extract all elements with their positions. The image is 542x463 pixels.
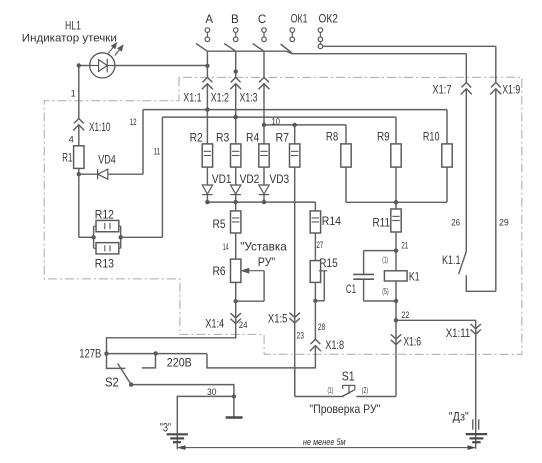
wire OK2 to X1:9 (323, 45, 496, 47)
label R13 (95, 257, 114, 271)
svg-text:K1.1: K1.1 (442, 253, 461, 267)
resistor R5 (231, 211, 241, 233)
node bus R7 (293, 123, 297, 127)
svg-text:VD3: VD3 (270, 172, 290, 186)
svg-text:28: 28 (318, 322, 326, 332)
label X1:8 (325, 340, 344, 352)
label K1 (409, 270, 420, 284)
connector X1:2 (230, 77, 241, 89)
wire phase A drop (206, 51, 208, 77)
diode VD4 (79, 169, 143, 179)
resistor R9 (391, 144, 401, 167)
terminal OK1 contacts (290, 28, 295, 42)
svg-text:C1: C1 (346, 282, 356, 296)
svg-text:R9: R9 (377, 130, 390, 144)
LED HL1 (90, 43, 124, 78)
svg-text:не менее 5м: не менее 5м (303, 437, 346, 448)
wire X1:9 down (495, 89, 497, 291)
label R2 (190, 131, 203, 145)
wire X1:4 out (107, 324, 236, 354)
wire R3 feed (235, 117, 237, 144)
resistor R2 (202, 144, 212, 167)
svg-text:X1:4: X1:4 (205, 319, 224, 331)
node 127V (104, 351, 108, 355)
label VD2 (240, 172, 260, 186)
wire to R12R13 (79, 236, 94, 238)
svg-text:Индикатор утечки: Индикатор утечки (22, 33, 117, 45)
diode VD2 (231, 167, 241, 202)
svg-text:X1:9: X1:9 (502, 85, 520, 97)
label 24 (239, 320, 248, 330)
label 30 (207, 387, 217, 397)
wire R1 to VD4 node (78, 168, 80, 174)
svg-text:R3: R3 (216, 131, 229, 145)
svg-text:VD2: VD2 (240, 172, 260, 186)
wire K1.1 lower (466, 275, 496, 291)
contact K1.1 blade (459, 252, 467, 275)
ground Дз (466, 434, 487, 442)
label R12 (95, 207, 114, 221)
wire S1 left lead (295, 396, 344, 398)
label X1:11 (446, 328, 471, 340)
wire R1 down (78, 174, 80, 237)
switch blade B (224, 44, 235, 52)
wire node30 to earth bar (233, 396, 235, 417)
node 5 (394, 299, 398, 303)
svg-text:X1:3: X1:3 (240, 92, 258, 104)
svg-text:A: A (205, 14, 213, 26)
wire R6 wiper loop (236, 268, 264, 301)
connector X1:6 (391, 334, 401, 344)
svg-text:X1:11: X1:11 (446, 328, 471, 340)
svg-text:R2: R2 (190, 131, 203, 145)
resistor R7 (290, 144, 300, 167)
wire R5 top lead (235, 202, 237, 211)
node bus B (234, 115, 238, 119)
potentiometer R6 (231, 259, 241, 282)
label VD1 (212, 172, 232, 186)
label 22 (401, 310, 409, 320)
svg-text:26: 26 (451, 218, 460, 228)
label X1:3 (240, 92, 258, 104)
svg-text:VD4: VD4 (98, 153, 116, 167)
wire 220V line (207, 354, 295, 368)
resistor R3 (231, 144, 241, 167)
resistor R10 (442, 144, 452, 167)
wire R2 feed (206, 110, 208, 144)
svg-text:X1:2: X1:2 (211, 92, 229, 104)
wire bus 10 (264, 124, 346, 126)
wire R8 R9 R10 bus (346, 201, 447, 203)
wire R15 to X1:8 (314, 282, 316, 339)
svg-text:220В: 220В (167, 357, 192, 369)
label Проверка РУ (309, 402, 380, 416)
connector X1:4 (231, 313, 241, 323)
svg-text:R10: R10 (423, 130, 440, 144)
label X1:9 (502, 85, 520, 97)
label 1 (71, 88, 76, 98)
svg-text:(1): (1) (328, 386, 334, 395)
terminal B contacts (233, 28, 238, 42)
wire S1 right lead (356, 396, 396, 398)
label K1.1 (442, 253, 461, 267)
wire X1:2 to bus (235, 84, 237, 117)
wire bus 11 (162, 116, 396, 118)
switch blade A (196, 44, 207, 52)
label Дз (449, 412, 469, 424)
wire X1:6 to S1 (395, 345, 397, 397)
label X1:1 (183, 92, 201, 104)
label 10 (272, 116, 281, 126)
diode VD1 (202, 167, 212, 202)
label 26 (451, 218, 460, 228)
wire bus 12 (143, 109, 447, 111)
svg-text:R4: R4 (246, 131, 259, 145)
earth bar (226, 416, 243, 419)
svg-text:B: B (231, 14, 239, 26)
svg-text:12: 12 (130, 117, 137, 127)
node B junction (234, 69, 238, 73)
wire 12 riser (142, 110, 144, 175)
label 27 (317, 240, 324, 250)
terminal B label (231, 14, 239, 26)
svg-text:VD1: VD1 (212, 172, 232, 186)
svg-text:11: 11 (154, 146, 160, 156)
svg-text:X1:10: X1:10 (89, 122, 111, 134)
wire bus to R14 (314, 202, 316, 211)
node 220V tap (154, 351, 158, 355)
wire phase B drop (235, 51, 237, 77)
svg-text:R12: R12 (95, 207, 114, 221)
label X1:10 (89, 122, 111, 134)
svg-text:X1:7: X1:7 (432, 84, 451, 96)
node bus A (205, 107, 209, 111)
wire diode bus (207, 201, 315, 203)
label pin (1) (382, 255, 388, 264)
label X1:6 (403, 337, 421, 349)
connector X1:8 (310, 339, 321, 351)
terminal OK2 label (319, 13, 338, 25)
label З (160, 422, 171, 434)
node R15 bottom junction (313, 299, 317, 303)
wire R7 to X1:5 (294, 167, 296, 313)
wire R9 feed (395, 117, 397, 144)
node 30 (232, 394, 236, 398)
label 14 (223, 242, 229, 252)
svg-text:R15: R15 (319, 256, 338, 270)
svg-text:R8: R8 (326, 130, 339, 144)
wire X1:3 to bus (263, 84, 265, 125)
svg-text:R14: R14 (322, 214, 341, 228)
wire node22 down (395, 320, 397, 334)
terminal A label (205, 14, 213, 26)
svg-text:РУ": РУ" (258, 255, 276, 269)
capacitor C1 (353, 251, 396, 301)
svg-text:ОК1: ОК1 (291, 13, 308, 25)
ground З (167, 434, 188, 442)
svg-text:X1:5: X1:5 (268, 313, 288, 325)
wire K1 to node5 (395, 281, 397, 320)
svg-text:S2: S2 (105, 375, 119, 389)
svg-text:23: 23 (297, 330, 305, 340)
connector X1:1 (202, 77, 213, 89)
wire S1 riser (294, 368, 296, 397)
connector X1:3 (259, 77, 270, 89)
terminal C contacts (262, 28, 267, 42)
wire X1:10 to R1 (78, 125, 80, 146)
label X1:7 (432, 84, 451, 96)
svg-text:R6: R6 (213, 264, 226, 278)
svg-text:X1:1: X1:1 (183, 92, 201, 104)
wire R11 to K1 (395, 232, 397, 271)
wire R7 feed (294, 125, 296, 144)
node R12R13 right (119, 235, 123, 239)
node R6 bottom junction (234, 299, 238, 303)
node diode bus VD3 (262, 200, 266, 204)
resistor R13 (94, 243, 121, 254)
switch blade OK1 (281, 44, 292, 53)
terminal OK2 contacts (318, 28, 323, 49)
terminal A contacts (205, 28, 210, 42)
svg-text:R11: R11 (373, 215, 391, 229)
label X1:2 (211, 92, 229, 104)
svg-text:29: 29 (499, 218, 509, 228)
svg-text:K1: K1 (409, 270, 420, 284)
label R4 (246, 131, 259, 145)
svg-text:ОК2: ОК2 (319, 13, 338, 25)
wire 22 line (396, 320, 476, 324)
label HL1 (65, 19, 81, 33)
svg-text:X1:6: X1:6 (403, 337, 421, 349)
label R8 (326, 130, 339, 144)
label R10 (423, 130, 440, 144)
svg-text:127В: 127В (79, 349, 101, 361)
svg-text:22: 22 (401, 310, 409, 320)
svg-text:"Уставка: "Уставка (240, 240, 287, 254)
svg-text:R7: R7 (276, 131, 290, 145)
potentiometer R15 (310, 261, 320, 283)
label Индикатор утечки (22, 33, 117, 45)
svg-text:(2): (2) (362, 386, 369, 395)
terminal OK1 label (291, 13, 308, 25)
node bus C (262, 123, 266, 127)
node R9 R11 junction (394, 200, 398, 204)
node diode bus VD1 (205, 200, 209, 204)
wire R5 to R6 (235, 233, 237, 259)
resistor R4 (259, 144, 269, 167)
wire R9 lead (395, 167, 397, 202)
wire phase C drop (263, 51, 265, 77)
diode VD3 (259, 167, 269, 202)
label 29 (499, 218, 509, 228)
wire R15 wiper loop (315, 271, 327, 301)
wire X1:5 down (294, 323, 296, 397)
node 21 (394, 248, 398, 252)
node VD4 (77, 172, 81, 176)
connector X1:9 (490, 83, 501, 95)
wire R12R13 side stubs (94, 226, 121, 248)
label не менее 5м (303, 437, 346, 448)
connector X1:5 (290, 313, 300, 323)
label 127В (79, 349, 101, 361)
node HL1 left junction (77, 63, 81, 67)
pushbutton S1 (342, 385, 355, 396)
label VD3 (270, 172, 290, 186)
wire X1:1 to bus (206, 84, 208, 110)
wire HL1 to phase A (115, 65, 207, 67)
wire HL1 left lead (79, 65, 90, 67)
node 22 (394, 318, 398, 322)
svg-text:27: 27 (317, 240, 324, 250)
label R5 (213, 217, 226, 231)
wire X1:9 feed (495, 46, 497, 82)
wire phase bus (207, 51, 466, 54)
label X1:5 (268, 313, 288, 325)
label 12 (130, 117, 137, 127)
resistor R11 (391, 209, 401, 232)
wire X1:11 to ground (475, 334, 477, 449)
wire S2 out (131, 385, 234, 397)
label R6 (213, 264, 226, 278)
label R14 (322, 214, 341, 228)
svg-text:(5): (5) (382, 287, 389, 296)
wire 220V stub (142, 354, 156, 368)
wire R10 lead (446, 167, 448, 202)
label 28 (318, 322, 326, 332)
wire R14 to R15 (314, 233, 316, 261)
wire R10 feed (446, 110, 448, 144)
resistor R14 (310, 211, 320, 233)
svg-text:30: 30 (207, 387, 217, 397)
svg-text:10: 10 (272, 116, 281, 126)
wire R4 feed (263, 125, 265, 144)
label S1 (342, 370, 355, 384)
svg-text:X1:8: X1:8 (325, 340, 344, 352)
svg-text:"Дз": "Дз" (449, 412, 469, 424)
wire R6 to X1:4 (235, 282, 237, 313)
wire bus to R11 (395, 202, 397, 209)
enclosure boundary (dash-dot) (44, 77, 522, 354)
label C1 (346, 282, 356, 296)
svg-text:"Проверка РУ": "Проверка РУ" (309, 402, 380, 416)
svg-text:S1: S1 (342, 370, 355, 384)
node A junction (205, 64, 209, 68)
label 4 (69, 135, 74, 145)
wire R8 lead (345, 167, 347, 202)
label S2 (105, 375, 119, 389)
svg-text:R13: R13 (95, 257, 114, 271)
svg-text:21: 21 (401, 241, 408, 251)
svg-text:1: 1 (71, 88, 76, 98)
switch S2 blade (118, 363, 132, 384)
relay coil K1 (384, 271, 407, 281)
node diode bus VD2 (234, 200, 238, 204)
label VD4 (98, 153, 116, 167)
label 23 (297, 330, 305, 340)
node S2 pivot (129, 382, 133, 386)
switch blade C (253, 44, 264, 52)
label pin (1) S1 (328, 386, 334, 395)
wire R8 feed (345, 125, 347, 144)
label pin (5) (382, 287, 389, 296)
resistor R8 (341, 144, 351, 167)
wire A col HL to X1:10 (78, 66, 80, 119)
svg-text:4: 4 (69, 135, 74, 145)
label 21 (401, 241, 408, 251)
connector X1:10 (73, 119, 84, 131)
wire R12R13 to riser 11 (121, 236, 163, 238)
resistor R12 (94, 220, 121, 231)
node R12R13 left (91, 235, 95, 239)
wire X1:8 out (295, 346, 316, 368)
label R3 (216, 131, 229, 145)
label Уставка РУ (240, 240, 287, 269)
svg-text:14: 14 (223, 242, 229, 252)
connector X1:11 (471, 324, 481, 334)
connector X1:7 (461, 83, 472, 95)
label 220В (167, 357, 192, 369)
resistor R1 (74, 146, 84, 169)
svg-text:24: 24 (239, 320, 248, 330)
label X1:4 (205, 319, 224, 331)
svg-text:HL1: HL1 (65, 19, 81, 33)
wire S2 fixed lead (107, 354, 126, 369)
svg-text:R5: R5 (213, 217, 226, 231)
label R11 (373, 215, 391, 229)
ground Дз ticks (473, 419, 479, 429)
label R7 (276, 131, 290, 145)
label 11 (154, 146, 160, 156)
dimension line 5m (178, 446, 476, 450)
wire X1:7 to K1.1 (465, 89, 467, 252)
wire node30 to ground Z (177, 396, 234, 449)
label R9 (377, 130, 390, 144)
label pin (2) S1 (362, 386, 369, 395)
svg-text:(1): (1) (382, 255, 388, 264)
svg-text:"З": "З" (160, 422, 171, 434)
wire X1:7 feed (465, 54, 467, 83)
terminal C label (258, 14, 266, 26)
svg-text:R1: R1 (62, 150, 72, 164)
label R1 (62, 150, 72, 164)
wire 11 riser (161, 117, 163, 237)
label R15 (319, 256, 338, 270)
svg-text:C: C (258, 14, 266, 26)
wire 127V line (107, 353, 208, 355)
